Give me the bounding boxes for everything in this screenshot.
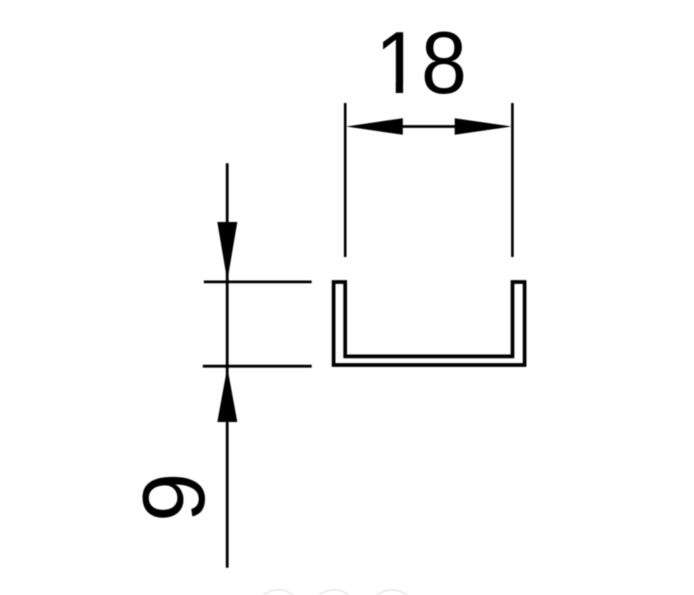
svg-text:18: 18 — [375, 14, 467, 112]
svg-text:9: 9 — [124, 473, 223, 522]
